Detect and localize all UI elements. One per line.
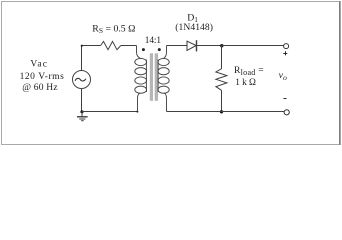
- svg-text:@ 60 Hz: @ 60 Hz: [22, 83, 57, 93]
- wire: AC source bottom to ground junction: [81, 89, 83, 112]
- wire: resistor Rload to bottom node: [221, 90, 223, 111]
- wire: bottom node to minus terminal: [222, 111, 285, 113]
- diode D1: [187, 41, 196, 50]
- wire: transformer secondary top to diode D1 anode: [167, 45, 188, 47]
- transformer T1 secondary winding: [158, 46, 169, 112]
- wire: AC source top to resistor RS: [82, 46, 101, 71]
- terminal minus: [284, 110, 289, 115]
- wire: ground junction to transformer primary bottom: [82, 111, 138, 113]
- svg-text:14:1: 14:1: [145, 36, 162, 46]
- transformer T1 polarity dot secondary: [158, 48, 161, 51]
- transformer T1 polarity dot primary: [142, 48, 145, 51]
- resistor Rload: [216, 69, 227, 91]
- resistor RS: [101, 41, 121, 49]
- junction: output node: [220, 44, 223, 47]
- svg-text:120 V-rms: 120 V-rms: [20, 72, 64, 82]
- junction: ground node: [80, 110, 83, 113]
- junction: bottom node: [220, 110, 223, 113]
- transformer T1 core: [150, 53, 153, 101]
- AC source Vac: [73, 71, 91, 89]
- wire: transformer secondary bottom to bottom node: [167, 111, 222, 113]
- transformer T1 primary winding: [135, 46, 147, 112]
- wire: output node down to resistor Rload: [221, 46, 223, 69]
- svg-text:1 k Ω: 1 k Ω: [235, 78, 256, 88]
- ground: [77, 112, 88, 121]
- wire: resistor RS to transformer primary: [121, 45, 137, 47]
- label plus: [283, 53, 287, 55]
- terminal plus: [284, 44, 289, 49]
- label minus: [284, 98, 287, 100]
- svg-text:RS = 0.5 Ω: RS = 0.5 Ω: [92, 23, 135, 35]
- wire: diode D1 cathode to output node: [197, 45, 222, 47]
- svg-text:Vac: Vac: [30, 60, 47, 70]
- svg-text:(1N4148): (1N4148): [175, 22, 213, 33]
- wire: output node to plus terminal: [222, 45, 284, 47]
